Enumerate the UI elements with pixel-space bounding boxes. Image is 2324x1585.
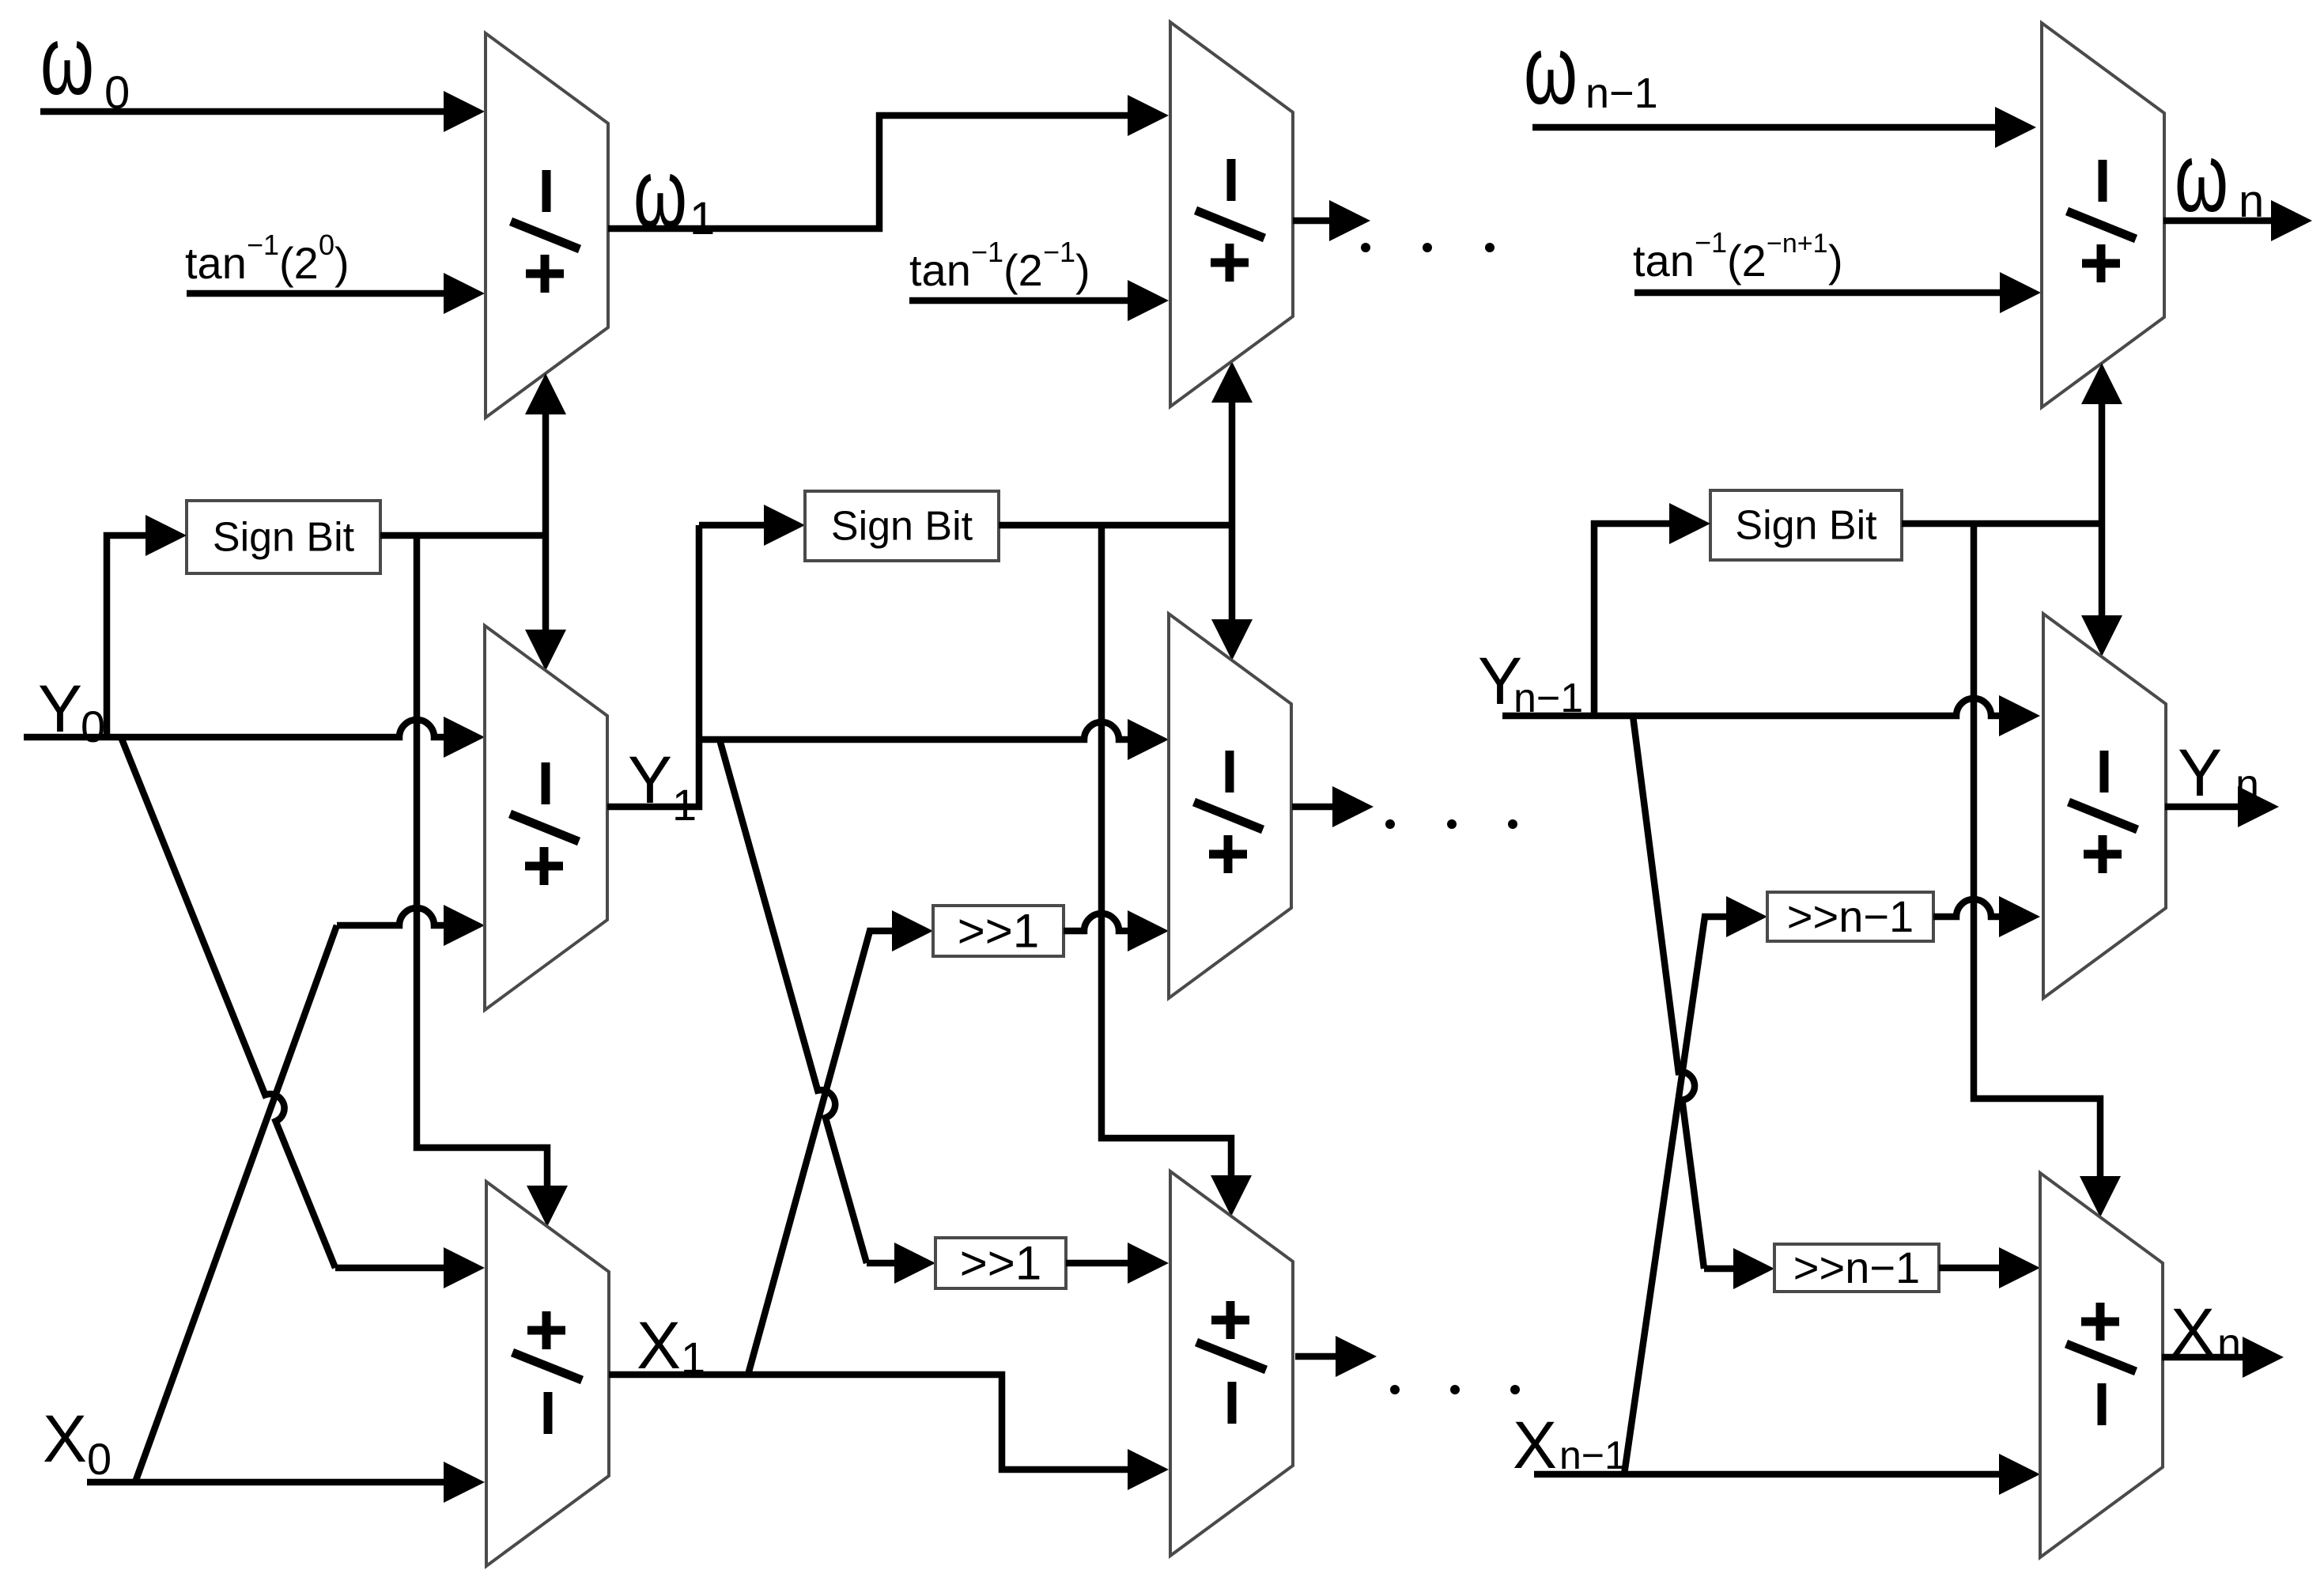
svg-text:0: 0 xyxy=(87,1434,111,1484)
svg-text:Y: Y xyxy=(2178,736,2222,810)
label w n-1 xyxy=(1524,16,1658,125)
sign control to X adder stage1 xyxy=(417,535,568,1227)
svg-text:): ) xyxy=(1075,245,1090,295)
svg-text:Y: Y xyxy=(628,743,672,817)
wire shifter to adder U9 xyxy=(1939,1247,2040,1288)
svg-text:tan: tan xyxy=(1633,236,1695,286)
shifter box >>n-1 (X path) xyxy=(1774,1243,1939,1292)
svg-text:): ) xyxy=(1828,236,1843,286)
label wn xyxy=(2175,123,2264,233)
label Y n-1 xyxy=(1478,644,1583,721)
wire Yn output xyxy=(2165,786,2279,827)
svg-text:ω: ω xyxy=(633,139,687,248)
wire Y1 to adder U5 xyxy=(699,719,1169,760)
wire Y2 output with ellipsis xyxy=(1292,786,1517,829)
sign-bit control vertical stage1 (U1-U2 double arrow) xyxy=(525,373,566,671)
svg-text:1: 1 xyxy=(672,780,697,830)
adder/subtractor U9 (X stage n) xyxy=(2040,1173,2163,1557)
svg-text:−1: −1 xyxy=(971,236,1003,268)
label Y1 xyxy=(628,743,697,830)
cross wire Y1 to shifter (diag A2) xyxy=(720,740,935,1284)
wire Y1 output xyxy=(607,525,699,807)
svg-text:>>n−1: >>n−1 xyxy=(1787,891,1914,941)
label Y0 xyxy=(38,671,105,751)
svg-text:−1: −1 xyxy=(247,229,279,261)
cross wire Xn-1 to shifter (diag Bn) xyxy=(1624,896,1767,1474)
adder/subtractor U6 (X stage2) xyxy=(1170,1171,1293,1556)
wire w1 output to adder U4 xyxy=(608,95,1169,229)
wire X1 output to adder U6 xyxy=(609,1375,1169,1490)
svg-text:n−1: n−1 xyxy=(1585,70,1658,117)
wire sign bit S2 output xyxy=(999,522,1232,529)
label tan-1(2^0) xyxy=(185,229,350,288)
svg-text:Sign Bit: Sign Bit xyxy=(213,515,355,561)
sign control to X adder stage2 xyxy=(1102,525,1252,1216)
svg-text:−1: −1 xyxy=(1043,236,1075,268)
wire tan0 to adder U1 xyxy=(187,273,485,314)
cross wire Yn-1 to shifter (diag An) xyxy=(1633,716,1774,1289)
wire Xn output xyxy=(2162,1337,2284,1378)
label tan-1(2^-n+1) xyxy=(1633,226,1843,286)
adder/subtractor U8 (Y stage n) xyxy=(2043,614,2166,998)
svg-text:n: n xyxy=(2235,761,2259,808)
shifter box >>1 (Y path) xyxy=(933,904,1064,957)
wire sign bit S3 output xyxy=(1902,520,2102,528)
svg-text:n−1: n−1 xyxy=(1559,1433,1627,1477)
label Yn xyxy=(2178,736,2259,810)
label Xn xyxy=(2171,1295,2241,1369)
adder/subtractor U4 (omega stage2) xyxy=(1170,22,1293,407)
wire tan1 to adder U4 xyxy=(909,280,1169,321)
svg-text:1: 1 xyxy=(690,193,715,244)
cross wire Y0 to X adder (diag A1) xyxy=(121,737,485,1288)
wire wn output xyxy=(2163,200,2312,241)
wire Yn-1 riser to sign bit S3 xyxy=(1594,503,1710,716)
label tan-1(2^-1) xyxy=(909,236,1090,295)
svg-text:ω: ω xyxy=(40,6,94,115)
wire Xn-1 to adder U9 xyxy=(1534,1454,2040,1495)
adder/subtractor U3 (X stage1) xyxy=(486,1182,609,1566)
adder/subtractor U5 (Y stage2) xyxy=(1169,614,1291,998)
wire tan n-1 to adder U7 xyxy=(1634,272,2041,313)
svg-text:Sign Bit: Sign Bit xyxy=(1735,503,1877,549)
label X n-1 xyxy=(1513,1408,1627,1482)
wire shifter to adder U8 xyxy=(1933,896,2040,937)
svg-text:−1: −1 xyxy=(1695,226,1727,259)
sign-bit control vertical stage n (U7-U8 double arrow) xyxy=(2081,363,2122,656)
sign bit box S2 xyxy=(805,491,999,561)
svg-text:X: X xyxy=(2171,1295,2215,1369)
svg-text:0: 0 xyxy=(81,702,105,751)
wire shifter to adder U6 xyxy=(1066,1243,1169,1284)
wire shifter to adder U5 xyxy=(1064,910,1169,951)
shifter box >>1 (X path) xyxy=(935,1236,1066,1289)
wire w0 to adder U1 xyxy=(40,91,485,132)
adder/subtractor U2 (Y stage1) xyxy=(485,626,607,1010)
wire sign bit S1 output xyxy=(380,532,546,539)
label w1 xyxy=(633,139,715,248)
svg-text:tan: tan xyxy=(909,245,971,295)
svg-text:(2: (2 xyxy=(279,238,319,288)
cross wire X0 to Y adder (diag B1) xyxy=(135,905,485,1482)
label X0 xyxy=(43,1402,111,1484)
sign control to X adder stage n xyxy=(1974,524,2121,1217)
svg-text:ω: ω xyxy=(1524,16,1578,125)
label w0 input xyxy=(40,6,130,119)
wire w2 output with ellipsis xyxy=(1293,200,1495,252)
wire X0 to adder U3 xyxy=(87,1462,485,1503)
cross wire X1 to shifter (diag B2) xyxy=(748,910,933,1375)
svg-text:n: n xyxy=(2217,1320,2241,1367)
sign-bit control vertical stage2 (U4-U5 double arrow) xyxy=(1211,361,1253,660)
svg-text:>>1: >>1 xyxy=(958,904,1039,957)
label X1 xyxy=(637,1308,705,1383)
svg-text:n: n xyxy=(2239,176,2264,227)
wire Y0 to adder U2 xyxy=(24,717,485,758)
sign bit box S1 xyxy=(187,501,380,573)
wire wn-1 to adder U7 xyxy=(1532,107,2036,148)
svg-text:1: 1 xyxy=(681,1333,705,1383)
svg-text:−n+1: −n+1 xyxy=(1767,229,1828,259)
svg-text:(2: (2 xyxy=(1003,245,1043,295)
svg-text:X: X xyxy=(43,1402,87,1476)
svg-text:(2: (2 xyxy=(1727,236,1767,286)
svg-text:tan: tan xyxy=(185,238,247,288)
sign bit box S3 xyxy=(1710,490,1902,560)
wire Yn-1 to adder U8 xyxy=(1502,695,2040,736)
svg-text:): ) xyxy=(334,238,350,288)
wire X2 output with ellipsis xyxy=(1295,1336,1520,1394)
wire Y0 riser to sign bit S1 xyxy=(107,515,187,737)
adder/subtractor U1 (omega stage1) xyxy=(486,33,608,418)
svg-text:0: 0 xyxy=(319,229,334,261)
adder/subtractor U7 (omega stage n) xyxy=(2042,23,2164,407)
wire Y1 riser to sign bit S2 xyxy=(699,505,805,546)
svg-text:>>1: >>1 xyxy=(960,1236,1041,1289)
svg-text:>>n−1: >>n−1 xyxy=(1793,1243,1920,1292)
svg-text:X: X xyxy=(637,1308,681,1383)
svg-text:Sign Bit: Sign Bit xyxy=(831,504,973,550)
shifter box >>n-1 (Y path) xyxy=(1767,891,1933,941)
svg-text:ω: ω xyxy=(2175,123,2228,233)
